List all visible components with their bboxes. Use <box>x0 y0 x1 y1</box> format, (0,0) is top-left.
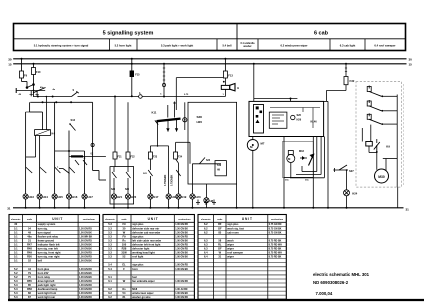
svg-text:1.00 GN RD: 1.00 GN RD <box>79 281 92 283</box>
switch S27 <box>333 169 348 171</box>
svg-text:cab room: cab room <box>227 230 239 234</box>
connector X2 <box>91 143 94 146</box>
svg-text:H13: H13 <box>29 195 35 199</box>
svg-text:5.4 bell: 5.4 bell <box>222 43 231 47</box>
svg-text:0.75 RD BK: 0.75 RD BK <box>269 249 282 251</box>
svg-text:1.50 GN BK: 1.50 GN BK <box>79 244 92 246</box>
svg-text:RF: RF <box>218 222 222 226</box>
svg-text:1.50 GN RD: 1.50 GN RD <box>79 253 92 255</box>
wire <box>254 98 298 100</box>
fuse F24 <box>174 152 178 159</box>
unit box S17 <box>110 167 134 204</box>
svg-text:1.00 GN RD: 1.00 GN RD <box>79 269 92 271</box>
svg-text:0.75 GN BK: 0.75 GN BK <box>269 228 282 230</box>
svg-text:park light right: park light right <box>38 283 56 287</box>
svg-text:code: code <box>27 219 33 221</box>
svg-text:1.00 GN RD: 1.00 GN RD <box>175 224 188 226</box>
svg-text:6.2 windscreen wiper: 6.2 windscreen wiper <box>280 43 307 47</box>
svg-text:RL: RL <box>218 242 222 246</box>
lamp H14 <box>37 194 42 199</box>
svg-text:6 cab: 6 cab <box>314 30 329 36</box>
washer pump M18 <box>288 151 293 155</box>
svg-text:1.00 GN BK: 1.00 GN BK <box>175 269 188 271</box>
svg-text:M18: M18 <box>132 287 138 291</box>
svg-text:OF: OF <box>218 226 222 230</box>
svg-text:6.2: 6.2 <box>204 226 208 230</box>
svg-text:sign plus: sign plus <box>227 222 239 226</box>
wire W1 continues <box>78 96 139 98</box>
contact marks <box>75 160 79 165</box>
svg-text:H21: H21 <box>117 195 123 199</box>
wire <box>345 85 347 91</box>
svg-text:electric schematic MHL 301: electric schematic MHL 301 <box>313 272 370 277</box>
svg-text:0.75 GN BK: 0.75 GN BK <box>269 232 282 234</box>
svg-text:5.3: 5.3 <box>108 242 112 246</box>
svg-text:work light front: work light front <box>38 291 57 295</box>
horn B1 <box>224 78 226 85</box>
switch S33 <box>368 113 370 116</box>
svg-text:5.4: 5.4 <box>108 267 112 271</box>
svg-text:6.3: 6.3 <box>204 242 208 246</box>
svg-text:H22: H22 <box>131 195 137 199</box>
svg-text:F24: F24 <box>178 156 183 159</box>
svg-text:0.75 RD BK: 0.75 RD BK <box>269 240 282 242</box>
svg-text:turn sig.: turn sig. <box>38 226 48 230</box>
wire stubs <box>30 91 32 97</box>
wire to lamp <box>346 170 348 190</box>
wire W1 to horn drop <box>142 96 225 98</box>
svg-text:H20: H20 <box>197 120 203 124</box>
svg-text:5.3: 5.3 <box>108 255 112 259</box>
svg-text:turn sig. rear left: turn sig. rear left <box>38 247 58 251</box>
svg-text:0.75 RD WH: 0.75 RD WH <box>269 244 282 246</box>
svg-text:F21: F21 <box>118 156 123 159</box>
svg-text:E19: E19 <box>181 195 186 199</box>
svg-text:1.00 GN RD: 1.00 GN RD <box>175 265 188 267</box>
wire module to ground <box>397 187 399 208</box>
svg-text:1.00 GN BK: 1.00 GN BK <box>175 253 188 255</box>
svg-text:F32: F32 <box>350 79 355 83</box>
fuse F23 <box>148 152 152 159</box>
svg-text:defroster left front light: defroster left front light <box>132 242 160 246</box>
fuse F13 <box>223 71 227 78</box>
fuse F32 <box>344 77 348 85</box>
lamp H16 <box>66 194 71 199</box>
ground symbols <box>197 200 199 203</box>
svg-text:0.75GNBK: 0.75GNBK <box>172 174 174 186</box>
svg-text:wiper: wiper <box>227 242 234 246</box>
fuse F9 <box>20 71 24 78</box>
fuse F15 feed <box>131 58 133 60</box>
wire from bus 30 <box>224 58 226 60</box>
svg-text:5.3: 5.3 <box>14 283 18 287</box>
svg-text:5.4: 5.4 <box>108 263 112 267</box>
wire vertical to K block <box>92 102 94 170</box>
svg-text:fan umbrella wiper: fan umbrella wiper <box>132 279 155 283</box>
svg-text:5.3: 5.3 <box>108 247 112 251</box>
svg-text:5.1: 5.1 <box>14 255 18 259</box>
svg-text:section/mm: section/mm <box>83 218 95 221</box>
svg-text:indicator flash left: indicator flash left <box>38 242 60 246</box>
wire: feed from bus 15 <box>33 63 35 65</box>
wires into box <box>114 97 116 153</box>
wire jog <box>30 111 43 113</box>
svg-text:5.1: 5.1 <box>14 230 18 234</box>
svg-text:100: 100 <box>122 242 127 246</box>
parts table 1 frame <box>9 215 100 300</box>
svg-text:R49: R49 <box>27 251 32 255</box>
fuse F22 <box>126 152 130 159</box>
relay K4 <box>35 130 51 136</box>
svg-text:M30: M30 <box>378 175 385 179</box>
svg-text:1.00 GN BK: 1.00 GN BK <box>79 261 92 263</box>
svg-text:5.1: 5.1 <box>14 226 18 230</box>
svg-text:1.50 GN RD: 1.50 GN RD <box>175 249 188 251</box>
svg-text:F10: F10 <box>36 70 41 74</box>
svg-text:1.50 GN BK: 1.50 GN BK <box>175 228 188 230</box>
svg-text:R48: R48 <box>27 247 32 251</box>
svg-text:6.3: 6.3 <box>204 238 208 242</box>
svg-text:ND 6090308026-2: ND 6090308026-2 <box>313 280 349 285</box>
svg-text:5.1: 5.1 <box>14 238 18 242</box>
svg-text:5.3: 5.3 <box>108 238 112 242</box>
svg-text:15: 15 <box>409 63 413 67</box>
svg-text:flasher unit relay: flasher unit relay <box>38 234 59 238</box>
svg-text:6.4 roof sweeper: 6.4 roof sweeper <box>374 43 395 47</box>
wire from bus 15 via connector <box>163 63 165 65</box>
svg-text:1.00 GN BK: 1.00 GN BK <box>79 277 92 279</box>
switch S7 (turn switch) <box>72 92 78 97</box>
svg-text:1.00 GN RD: 1.00 GN RD <box>79 297 92 299</box>
svg-text:30: 30 <box>8 58 12 62</box>
svg-text:6.4: 6.4 <box>204 251 208 255</box>
fuse F21 <box>113 152 117 159</box>
lamp H23 <box>190 194 195 199</box>
svg-text:5.3: 5.3 <box>14 287 18 291</box>
svg-text:defroster side rear mir: defroster side rear mir <box>132 226 159 230</box>
svg-text:M7: M7 <box>261 142 265 146</box>
svg-text:15: 15 <box>8 63 12 67</box>
svg-text:elements: elements <box>105 218 115 221</box>
svg-text:30: 30 <box>409 58 413 62</box>
svg-text:1.50 GN RD: 1.50 GN RD <box>79 228 92 230</box>
bottom border line <box>8 299 424 301</box>
svg-text:31W: 31W <box>121 251 127 255</box>
valve arrow <box>309 155 314 166</box>
svg-text:H16: H16 <box>72 195 78 199</box>
svg-text:31b: 31b <box>305 180 309 182</box>
check valve <box>300 157 307 159</box>
switch levers above lamps <box>40 167 47 173</box>
svg-text:sign plus: sign plus <box>132 234 144 238</box>
svg-text:wash: wash <box>227 238 234 242</box>
svg-text:5.3 park light + work light: 5.3 park light + work light <box>161 43 193 47</box>
svg-text:1.00 GN RD: 1.00 GN RD <box>79 293 92 295</box>
svg-text:5.3: 5.3 <box>108 222 112 226</box>
svg-text:1.50 GN BK: 1.50 GN BK <box>79 249 92 251</box>
svg-text:sign plus: sign plus <box>132 222 144 226</box>
svg-text:H17: H17 <box>88 195 94 199</box>
svg-text:OF: OF <box>218 247 222 251</box>
svg-text:5.3: 5.3 <box>14 295 18 299</box>
svg-text:turn sig. rear right: turn sig. rear right <box>38 255 60 259</box>
svg-text:1.00 GN RD: 1.00 GN RD <box>175 281 188 283</box>
svg-text:6.1: 6.1 <box>108 279 112 283</box>
lamp H24 <box>344 190 350 196</box>
svg-text:5.1: 5.1 <box>14 259 18 263</box>
relay K16 inner <box>269 112 287 128</box>
svg-text:0.75 RD BK: 0.75 RD BK <box>269 257 282 259</box>
svg-text:1.00 GN RD: 1.00 GN RD <box>79 285 92 287</box>
svg-text:5.1: 5.1 <box>14 251 18 255</box>
svg-text:5.3: 5.3 <box>14 291 18 295</box>
svg-text:H14: H14 <box>43 195 49 199</box>
svg-text:washer gn wire: washer gn wire <box>132 295 151 299</box>
svg-text:1.00 JH RD: 1.00 JH RD <box>175 289 187 291</box>
svg-text:6.2: 6.2 <box>204 222 208 226</box>
svg-text:S23: S23 <box>206 160 211 162</box>
lamp H18 <box>166 194 171 199</box>
wire horn to W1 <box>224 89 226 96</box>
svg-text:1.00 GN BK: 1.00 GN BK <box>175 257 188 259</box>
svg-text:5.1: 5.1 <box>14 242 18 246</box>
svg-text:bell: bell <box>38 259 43 263</box>
svg-text:drive light left: drive light left <box>38 279 55 283</box>
svg-text:1.00 GN BK: 1.00 GN BK <box>79 232 92 234</box>
svg-text:supply system: supply system <box>38 222 56 226</box>
svg-text:turn sig. front right: turn sig. front right <box>38 251 61 255</box>
wire: feed from bus 30 <box>21 58 23 60</box>
wiper motor sub-box M1 <box>254 105 264 134</box>
svg-text:7.000,04: 7.000,04 <box>316 291 333 296</box>
svg-text:H8: H8 <box>210 199 214 203</box>
svg-text:R47: R47 <box>27 242 32 246</box>
svg-text:5.2 horn light: 5.2 horn light <box>115 43 132 47</box>
distribution wires <box>150 145 168 147</box>
svg-text:R58: R58 <box>27 287 32 291</box>
svg-text:5.2: 5.2 <box>14 275 18 279</box>
svg-text:F15: F15 <box>135 74 140 77</box>
svg-text:1.50 GN RD: 1.50 GN RD <box>175 244 188 246</box>
svg-text:1.00 GN RD: 1.00 GN RD <box>79 289 92 291</box>
wires inside <box>270 107 320 109</box>
svg-text:wiper: wiper <box>227 247 234 251</box>
svg-text:S27: S27 <box>349 169 354 173</box>
parts table 3 frame <box>198 215 286 300</box>
switch S22 <box>176 170 180 176</box>
lamp H21 <box>111 194 116 199</box>
svg-text:U N I T: U N I T <box>148 217 158 221</box>
svg-text:horn relay: horn relay <box>38 275 51 279</box>
svg-text:5.3: 5.3 <box>108 230 112 234</box>
svg-text:K11: K11 <box>152 111 157 115</box>
svg-text:windscreen wiper: windscreen wiper <box>132 291 153 295</box>
svg-text:Os: Os <box>122 287 126 291</box>
inner box S19 H9 <box>215 161 226 176</box>
wires to lamps <box>149 159 151 170</box>
svg-text:5.1: 5.1 <box>14 234 18 238</box>
svg-text:6.2: 6.2 <box>108 291 112 295</box>
indicator node <box>291 115 295 119</box>
switch S24 <box>112 172 117 178</box>
svg-text:6.3: 6.3 <box>204 247 208 251</box>
svg-text:S19: S19 <box>217 165 222 167</box>
switch S21 <box>148 170 152 176</box>
wire cross ties <box>26 111 30 113</box>
wire <box>33 75 35 97</box>
unit box A <box>188 102 237 184</box>
wire module bus <box>396 95 398 188</box>
svg-text:0.75 GN RD: 0.75 GN RD <box>269 224 282 226</box>
motor M30 <box>375 169 389 183</box>
switch lever <box>26 167 33 173</box>
svg-text:49a: 49a <box>27 234 32 238</box>
svg-text:31: 31 <box>406 207 410 211</box>
svg-text:1.00 GN RD: 1.00 GN RD <box>175 236 188 238</box>
svg-text:5.2: 5.2 <box>14 271 18 275</box>
svg-text:6.3 cab light: 6.3 cab light <box>340 43 356 47</box>
svg-text:S12: S12 <box>71 118 76 122</box>
svg-text:elements: elements <box>201 218 211 221</box>
svg-text:F13: F13 <box>228 74 233 78</box>
switch S25 <box>126 172 131 178</box>
switch lever S5 <box>33 88 46 93</box>
svg-text:section/mm: section/mm <box>178 218 190 221</box>
svg-text:defroster cab rear wdw: defroster cab rear wdw <box>132 230 160 234</box>
svg-text:work light rear: work light rear <box>38 295 56 299</box>
switch S5 (hazard) <box>32 83 35 86</box>
dashed module box <box>356 82 401 188</box>
svg-text:KL46: KL46 <box>311 121 318 124</box>
switch S14 <box>59 168 63 170</box>
svg-text:R55: R55 <box>27 279 32 283</box>
junction node <box>184 102 186 130</box>
svg-text:H24: H24 <box>352 192 357 196</box>
svg-text:31b: 31b <box>285 180 289 182</box>
svg-text:horn 24V: horn 24V <box>38 271 49 275</box>
svg-text:fuel: fuel <box>132 275 137 279</box>
svg-text:K9: K9 <box>386 145 390 149</box>
bus 30 <box>13 58 406 60</box>
wire <box>21 78 23 82</box>
wire right side <box>327 101 329 207</box>
wires <box>283 137 285 178</box>
svg-text:1.50 GN BK: 1.50 GN BK <box>175 232 188 234</box>
wire motor to ground <box>252 137 254 140</box>
svg-text:frame ground: frame ground <box>38 238 55 242</box>
svg-text:horn plus: horn plus <box>38 267 50 271</box>
lamp E17 <box>148 194 153 199</box>
svg-text:working head light: working head light <box>132 251 155 255</box>
svg-text:5.3: 5.3 <box>108 226 112 230</box>
svg-text:S26: S26 <box>297 114 302 117</box>
svg-text:dashboard lamp: dashboard lamp <box>38 287 58 291</box>
bus 31 (ground) <box>13 207 404 209</box>
motor M7 <box>247 140 258 151</box>
wiper module box <box>249 101 324 136</box>
svg-text:M18: M18 <box>299 150 304 153</box>
svg-text:roof light: roof light <box>132 255 143 259</box>
svg-text:roof sweeper: roof sweeper <box>227 251 243 255</box>
svg-text:1.00 GN RD: 1.00 GN RD <box>79 240 92 242</box>
lamp H8 <box>205 184 207 198</box>
connector X1 <box>139 95 143 99</box>
svg-text:6.2: 6.2 <box>108 287 112 291</box>
switch S32 <box>368 100 370 103</box>
parts table 2 frame <box>103 215 194 300</box>
svg-text:F23: F23 <box>153 156 158 159</box>
svg-text:6.4: 6.4 <box>204 255 208 259</box>
svg-text:1.00 WH BK: 1.00 WH BK <box>79 236 92 238</box>
svg-text:5.3: 5.3 <box>108 251 112 255</box>
switch S31 <box>368 86 370 89</box>
svg-text:1.00 GN BK: 1.00 GN BK <box>175 293 188 295</box>
wire W2 <box>30 101 92 103</box>
svg-text:S24: S24 <box>111 188 116 191</box>
svg-text:E17: E17 <box>154 195 159 199</box>
header table frame <box>14 24 406 51</box>
lamp H22 <box>125 194 130 199</box>
lamp H17 <box>82 194 87 199</box>
svg-text:31: 31 <box>7 207 11 211</box>
svg-text:wash sig. fast: wash sig. fast <box>227 226 244 230</box>
svg-text:washer: washer <box>243 45 251 48</box>
wires down to ground <box>283 178 285 208</box>
svg-text:6.2: 6.2 <box>204 230 208 234</box>
svg-text:5.1: 5.1 <box>14 247 18 251</box>
lamp E19 <box>176 194 181 199</box>
wire <box>236 184 238 208</box>
svg-text:Rs: Rs <box>122 238 126 242</box>
svg-text:U N I T: U N I T <box>52 217 62 221</box>
svg-text:S28: S28 <box>197 115 203 119</box>
svg-text:0.75GNRD: 0.75GNRD <box>165 174 167 186</box>
switch S23 with wire <box>192 163 221 165</box>
svg-text:R50: R50 <box>27 255 32 259</box>
svg-text:H23: H23 <box>195 195 201 199</box>
svg-text:elements: elements <box>11 218 21 221</box>
relay K9 <box>361 128 363 142</box>
svg-text:5.3: 5.3 <box>14 279 18 283</box>
svg-text:EL: EL <box>122 263 126 267</box>
lamp H13 <box>23 194 28 199</box>
svg-text:left side cabin rear wdw: left side cabin rear wdw <box>132 238 161 242</box>
svg-text:6.1: 6.1 <box>108 275 112 279</box>
svg-text:1.00 GN BK: 1.00 GN BK <box>175 240 188 242</box>
svg-text:H15: H15 <box>58 195 64 199</box>
wire tie <box>45 97 47 130</box>
svg-text:code: code <box>121 219 127 221</box>
washer box <box>283 141 314 177</box>
nested return wires <box>316 137 318 172</box>
terminal 49a <box>15 88 17 93</box>
svg-text:code: code <box>217 219 223 221</box>
svg-text:S25: S25 <box>125 189 130 191</box>
wire from bus 15 <box>253 63 255 65</box>
svg-text:0.75 RD WH: 0.75 RD WH <box>269 253 282 255</box>
wire from bus 15 <box>345 63 347 65</box>
wire <box>175 142 177 152</box>
svg-text:H26: H26 <box>297 119 302 122</box>
wire lamp feeds <box>25 112 27 194</box>
svg-text:5.2: 5.2 <box>14 267 18 271</box>
svg-text:5 signalling system: 5 signalling system <box>103 30 154 36</box>
svg-text:1.00 GN RD: 1.00 GN RD <box>175 297 188 299</box>
wire W1 long horizontal <box>33 96 72 98</box>
svg-text:F22: F22 <box>131 156 136 159</box>
svg-text:wiper: wiper <box>227 255 234 259</box>
svg-text:defroster light: defroster light <box>132 247 149 251</box>
